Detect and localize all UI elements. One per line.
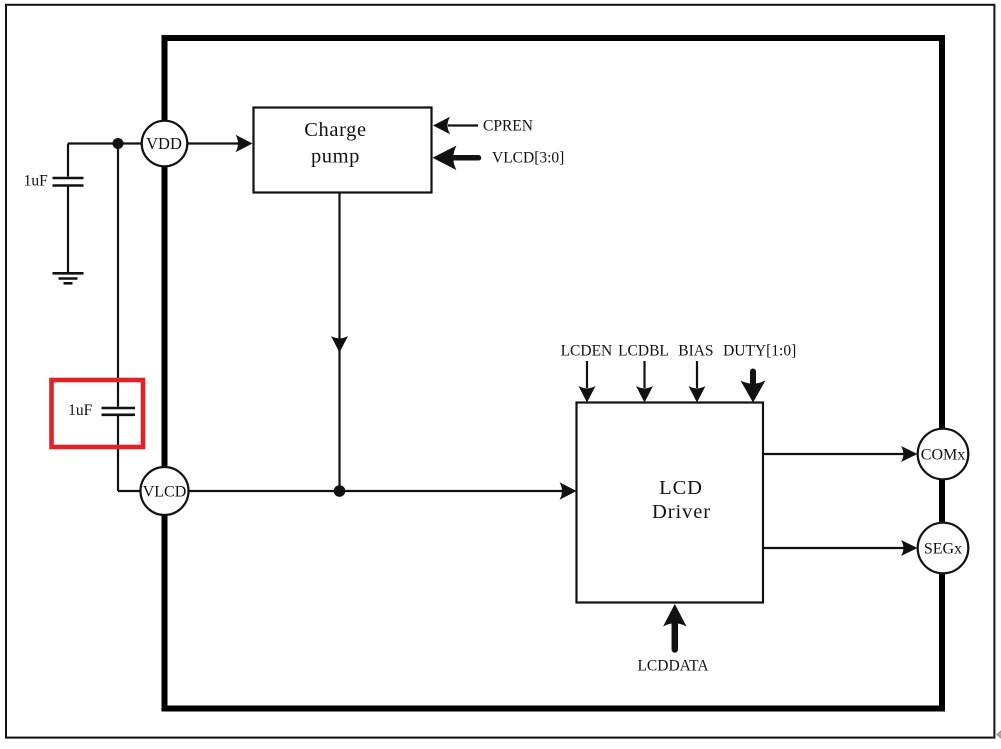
svg-text:COMx: COMx [921,446,965,463]
svg-text:VLCD: VLCD [143,483,187,500]
svg-text:Driver: Driver [652,501,711,523]
svg-text:pump: pump [311,146,360,168]
svg-text:Charge: Charge [304,119,366,141]
svg-text:SEGx: SEGx [924,540,962,557]
svg-text:LCDEN: LCDEN [561,343,613,360]
svg-text:1uF: 1uF [24,173,49,190]
svg-text:CPREN: CPREN [483,118,533,135]
svg-text:VDD: VDD [146,134,182,153]
svg-text:1uF: 1uF [68,402,93,419]
svg-text:BIAS: BIAS [678,343,713,360]
svg-text:LCD: LCD [659,477,703,499]
svg-text:LCDBL: LCDBL [618,343,669,360]
svg-text:LCDDATA: LCDDATA [637,658,709,675]
svg-text:VLCD[3:0]: VLCD[3:0] [492,150,564,167]
svg-text:DUTY[1:0]: DUTY[1:0] [723,343,796,360]
